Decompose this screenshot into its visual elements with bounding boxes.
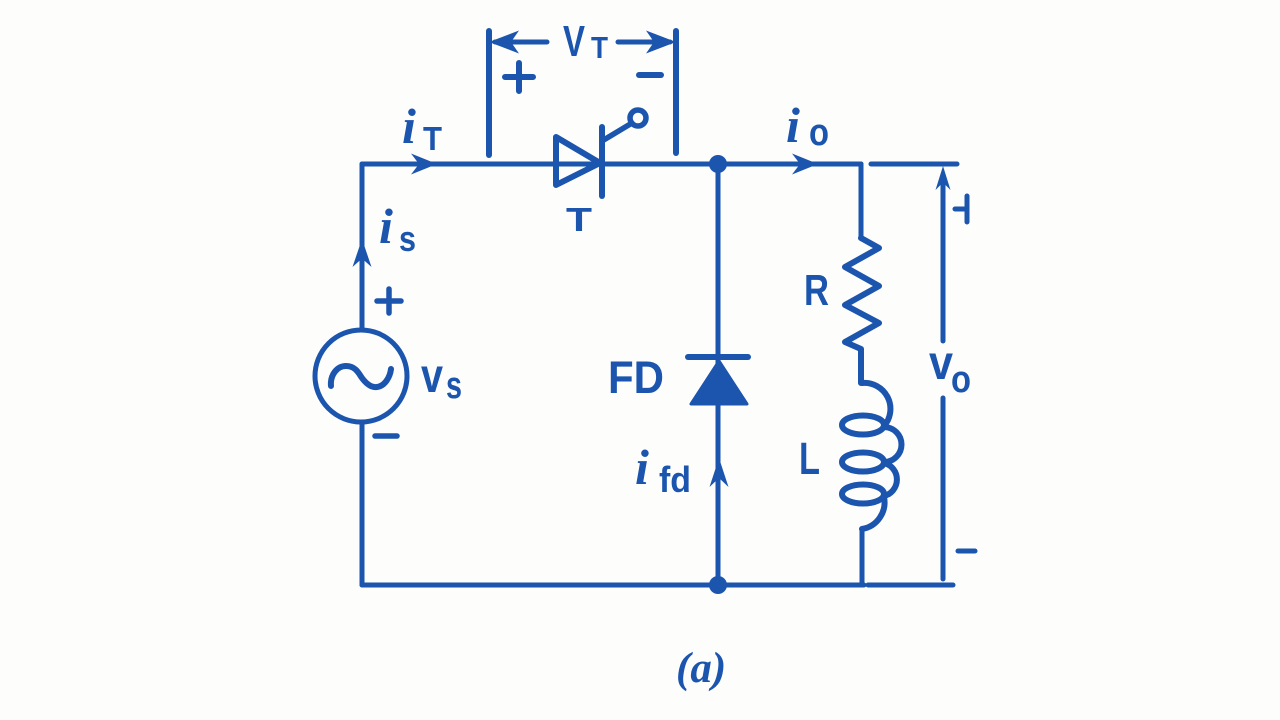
svg-text:i: i: [402, 98, 416, 154]
svg-text:i: i: [786, 97, 800, 153]
svg-text:fd: fd: [659, 459, 691, 500]
svg-text:FD: FD: [608, 352, 664, 403]
svg-text:R: R: [804, 266, 829, 315]
svg-text:s: s: [399, 218, 416, 259]
svg-text:T: T: [423, 120, 442, 157]
svg-text:T: T: [566, 201, 592, 238]
svg-text:v: v: [421, 350, 443, 403]
svg-text:s: s: [446, 365, 462, 407]
svg-text:i: i: [635, 439, 649, 495]
svg-text:T: T: [591, 30, 608, 65]
svg-text:i: i: [379, 198, 393, 254]
svg-text:o: o: [809, 112, 829, 154]
svg-text:v: v: [929, 337, 953, 390]
svg-text:(a): (a): [676, 645, 726, 692]
svg-text:V: V: [563, 17, 585, 66]
svg-text:L: L: [799, 433, 820, 484]
svg-text:o: o: [951, 359, 971, 401]
